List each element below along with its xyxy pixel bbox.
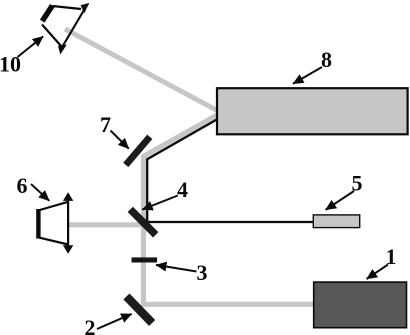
svg-text:4: 4 — [177, 177, 188, 202]
label 6 — [17, 173, 50, 201]
attenuator 3 — [132, 257, 158, 262]
box 1 (laser head) — [314, 282, 407, 328]
mirror 2 — [123, 293, 155, 326]
label 10 — [0, 36, 43, 76]
wire: gray beam path box 8 to mirror 7, down to beamsplitter 4, down to mirror 2, right to box 1 — [144, 114, 317, 304]
label 8 — [293, 47, 332, 84]
shaker mirror 6 — [36, 192, 73, 254]
box 5 (detector) — [313, 215, 359, 228]
label 5 — [326, 171, 363, 210]
label 3 — [156, 260, 208, 285]
svg-text:8: 8 — [321, 47, 332, 72]
wire: gray beam from scanning mirror 10 to laser box 8 — [65, 29, 219, 112]
label 2 — [85, 314, 132, 335]
svg-text:2: 2 — [85, 315, 96, 335]
mirror 7 — [123, 135, 152, 168]
scanning mirror 10 — [40, 3, 89, 55]
label 4 — [142, 177, 188, 209]
label 7 — [100, 112, 129, 149]
wire: gray beam from beamsplitter 4 left to shaker mirror 6 — [69, 222, 147, 227]
box 8 (laser) — [217, 88, 408, 134]
svg-text:6: 6 — [17, 173, 28, 198]
svg-text:10: 10 — [0, 52, 21, 77]
label 1 — [367, 244, 397, 279]
beamsplitter 4 — [128, 207, 159, 238]
svg-text:7: 7 — [100, 112, 111, 137]
svg-text:3: 3 — [197, 260, 208, 285]
wire: thin black beam path box 8 to mirror 7, down to beamsplitter 4, right to detector 5 — [147, 118, 313, 222]
